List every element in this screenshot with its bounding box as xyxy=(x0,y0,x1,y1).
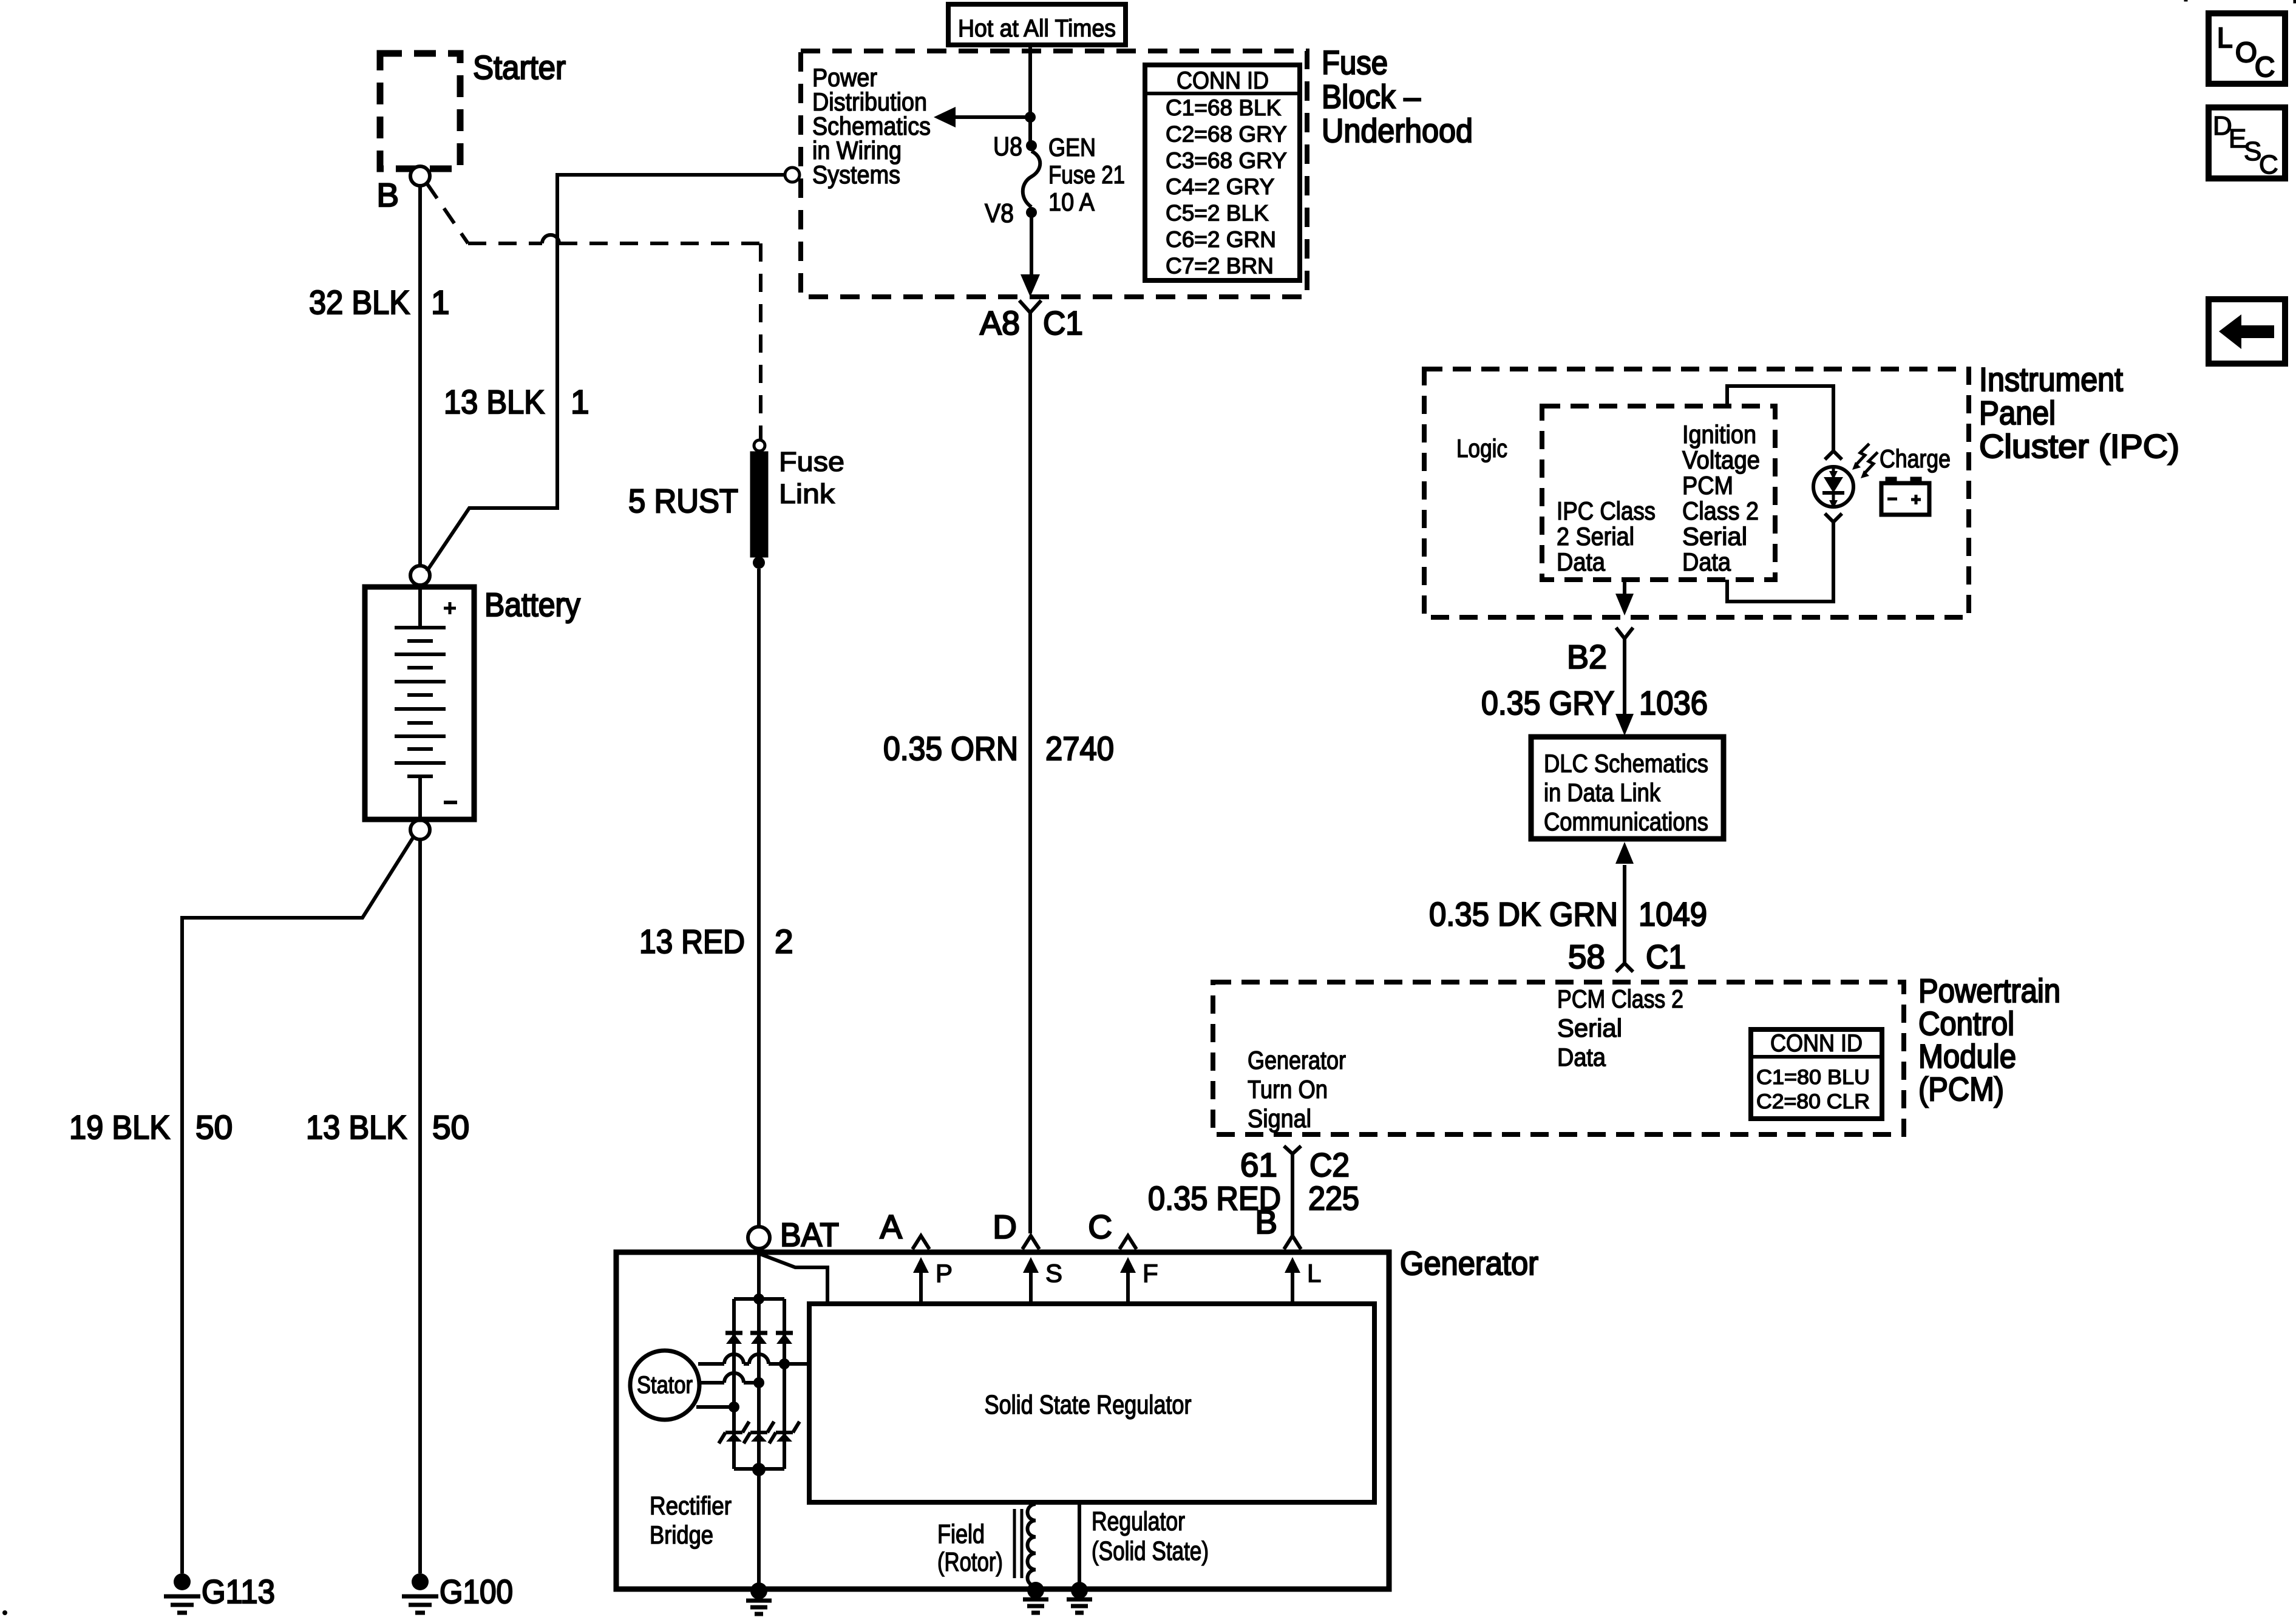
svg-text:32 BLK: 32 BLK xyxy=(309,283,410,321)
svg-text:C3=68 GRY: C3=68 GRY xyxy=(1166,148,1287,173)
svg-text:C7=2 BRN: C7=2 BRN xyxy=(1166,253,1274,278)
svg-text:PCM: PCM xyxy=(1682,471,1733,500)
svg-text:C4=2 GRY: C4=2 GRY xyxy=(1166,174,1274,199)
svg-text:Data: Data xyxy=(1557,1043,1606,1071)
svg-text:B2: B2 xyxy=(1567,638,1607,676)
svg-text:L: L xyxy=(1307,1259,1321,1287)
svg-text:S: S xyxy=(1045,1259,1062,1287)
svg-text:Signal: Signal xyxy=(1248,1104,1311,1133)
svg-text:Underhood: Underhood xyxy=(1322,112,1473,149)
svg-text:C2=68 GRY: C2=68 GRY xyxy=(1166,121,1287,146)
svg-text:F: F xyxy=(1143,1259,1158,1287)
svg-text:Turn On: Turn On xyxy=(1248,1075,1328,1103)
svg-text:G113: G113 xyxy=(202,1573,275,1610)
svg-text:Starter: Starter xyxy=(473,49,566,86)
svg-text:C6=2 GRN: C6=2 GRN xyxy=(1166,227,1276,252)
svg-text:C: C xyxy=(2259,150,2278,180)
svg-text:Instrument: Instrument xyxy=(1979,361,2123,398)
svg-text:Communications: Communications xyxy=(1544,807,1708,836)
svg-text:CONN ID: CONN ID xyxy=(1770,1030,1863,1057)
svg-text:Battery: Battery xyxy=(484,586,580,623)
svg-text:Powertrain: Powertrain xyxy=(1918,972,2060,1009)
svg-text:Class 2: Class 2 xyxy=(1682,497,1759,525)
svg-text:CONN ID: CONN ID xyxy=(1177,67,1269,94)
svg-text:Voltage: Voltage xyxy=(1682,446,1760,474)
svg-text:C: C xyxy=(1088,1208,1112,1246)
svg-text:Control: Control xyxy=(1918,1005,2014,1042)
svg-text:Systems: Systems xyxy=(812,160,900,189)
svg-text:V8: V8 xyxy=(985,198,1014,228)
svg-text:Fuse: Fuse xyxy=(779,446,844,477)
svg-text:B: B xyxy=(1255,1203,1277,1241)
svg-text:C1: C1 xyxy=(1043,304,1083,342)
svg-text:C1=80 BLU: C1=80 BLU xyxy=(1756,1066,1870,1089)
svg-text:C1: C1 xyxy=(1646,938,1686,975)
svg-text:DLC Schematics: DLC Schematics xyxy=(1544,749,1708,778)
svg-text:0.35 GRY: 0.35 GRY xyxy=(1481,684,1614,722)
svg-text:Ignition: Ignition xyxy=(1682,420,1756,449)
svg-text:Hot at All Times: Hot at All Times xyxy=(958,15,1116,42)
svg-text:B: B xyxy=(376,176,399,214)
svg-text:1036: 1036 xyxy=(1639,684,1708,722)
svg-text:Regulator: Regulator xyxy=(1092,1507,1185,1536)
svg-text:(Rotor): (Rotor) xyxy=(937,1547,1003,1577)
svg-text:Serial: Serial xyxy=(1682,522,1747,551)
svg-text:O: O xyxy=(2235,36,2257,68)
svg-text:in Data Link: in Data Link xyxy=(1544,778,1661,807)
svg-text:U8: U8 xyxy=(993,132,1022,161)
svg-text:Logic: Logic xyxy=(1456,434,1507,463)
svg-text:Block –: Block – xyxy=(1322,78,1421,115)
svg-text:13 BLK: 13 BLK xyxy=(306,1108,407,1146)
svg-text:61: 61 xyxy=(1240,1146,1277,1184)
svg-text:58: 58 xyxy=(1568,938,1605,975)
svg-text:C5=2 BLK: C5=2 BLK xyxy=(1166,201,1269,226)
svg-text:13 BLK: 13 BLK xyxy=(444,383,545,421)
svg-text:Stator: Stator xyxy=(637,1372,693,1398)
svg-text:Solid State Regulator: Solid State Regulator xyxy=(985,1390,1192,1420)
svg-text:0.35 DK GRN: 0.35 DK GRN xyxy=(1429,895,1618,933)
svg-text:2740: 2740 xyxy=(1045,730,1114,767)
svg-text:1: 1 xyxy=(571,383,589,421)
svg-text:A8: A8 xyxy=(980,304,1020,342)
svg-text:Module: Module xyxy=(1918,1037,2016,1075)
svg-text:Bridge: Bridge xyxy=(650,1520,713,1549)
svg-text:Generator: Generator xyxy=(1400,1244,1538,1282)
svg-text:Panel: Panel xyxy=(1979,394,2056,432)
svg-text:5 RUST: 5 RUST xyxy=(628,482,738,520)
svg-text:13 RED: 13 RED xyxy=(639,923,745,960)
svg-text:10 A: 10 A xyxy=(1048,188,1095,216)
svg-text:PCM Class 2: PCM Class 2 xyxy=(1557,985,1683,1013)
svg-text:C2: C2 xyxy=(1309,1146,1350,1184)
svg-text:0.35 ORN: 0.35 ORN xyxy=(883,730,1018,767)
svg-text:Fuse 21: Fuse 21 xyxy=(1048,160,1125,189)
svg-text:GEN: GEN xyxy=(1048,133,1096,161)
svg-text:Link: Link xyxy=(779,478,835,509)
svg-text:G100: G100 xyxy=(440,1573,513,1610)
svg-text:C1=68 BLK: C1=68 BLK xyxy=(1166,95,1282,120)
svg-text:BAT: BAT xyxy=(780,1216,839,1253)
svg-text:225: 225 xyxy=(1308,1179,1359,1217)
svg-text:C: C xyxy=(2255,51,2275,83)
svg-text:Cluster (IPC): Cluster (IPC) xyxy=(1979,427,2179,465)
svg-text:(PCM): (PCM) xyxy=(1918,1070,2004,1108)
svg-text:(Solid State): (Solid State) xyxy=(1092,1536,1209,1566)
svg-text:50: 50 xyxy=(195,1108,233,1146)
svg-text:50: 50 xyxy=(432,1108,469,1146)
svg-text:Charge: Charge xyxy=(1880,444,1951,473)
svg-text:Data: Data xyxy=(1557,547,1606,576)
svg-text:2: 2 xyxy=(775,923,793,960)
svg-text:C2=80 CLR: C2=80 CLR xyxy=(1756,1090,1870,1113)
svg-text:1049: 1049 xyxy=(1639,895,1707,933)
svg-text:2 Serial: 2 Serial xyxy=(1557,522,1634,551)
svg-text:L: L xyxy=(2217,22,2233,53)
svg-text:Rectifier: Rectifier xyxy=(650,1491,732,1520)
svg-text:Serial: Serial xyxy=(1557,1014,1622,1042)
svg-text:1: 1 xyxy=(431,283,450,321)
svg-text:D: D xyxy=(993,1208,1017,1246)
svg-text:Fuse: Fuse xyxy=(1322,44,1388,81)
svg-text:Field: Field xyxy=(937,1519,985,1549)
svg-text:19 BLK: 19 BLK xyxy=(69,1108,170,1146)
svg-text:P: P xyxy=(936,1259,953,1287)
svg-text:Data: Data xyxy=(1682,547,1731,576)
svg-text:IPC Class: IPC Class xyxy=(1557,497,1656,525)
svg-text:Generator: Generator xyxy=(1248,1046,1346,1074)
svg-text:A: A xyxy=(880,1208,902,1246)
